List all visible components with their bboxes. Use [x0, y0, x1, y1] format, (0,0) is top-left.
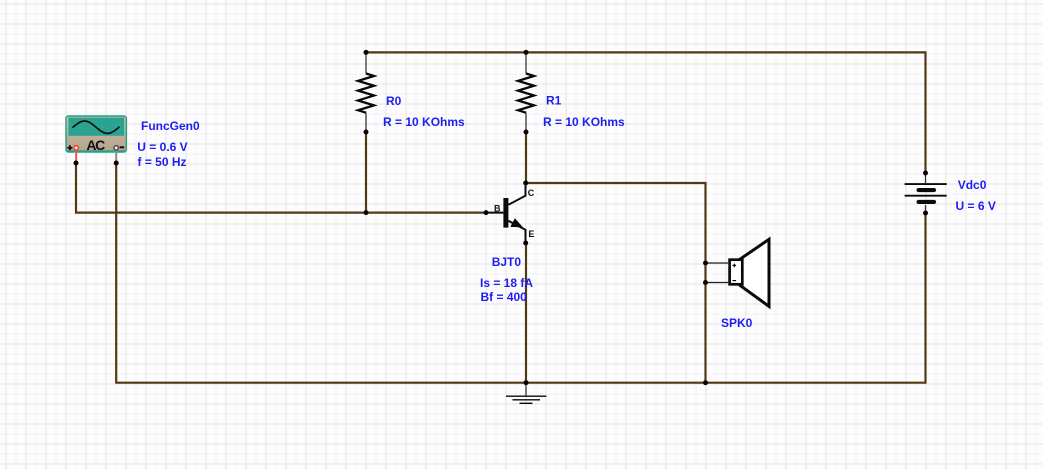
battery Vdc0 short plate 2 [919, 200, 934, 204]
wire from R0 bottom to base rail [365, 132, 367, 213]
junction dot speaker plus [703, 261, 708, 266]
svg-text:BJT0: BJT0 [492, 255, 522, 269]
label SPK0 [721, 316, 753, 330]
svg-text:f = 50 Hz: f = 50 Hz [138, 155, 187, 169]
svg-text:AC: AC [86, 137, 105, 153]
label Vdc0 [958, 178, 987, 192]
wire from emitter down to ground node [525, 243, 527, 383]
ground symbol [506, 384, 546, 403]
svg-text:E: E [528, 229, 534, 239]
value FuncGen0 f = 50 Hz [138, 155, 187, 169]
svg-text:Bf = 400: Bf = 400 [481, 290, 528, 304]
resistor R0 [358, 54, 374, 131]
pin label C [528, 188, 535, 198]
svg-text:R0: R0 [386, 94, 402, 108]
wire base rail from FuncGen+ to transistor base [76, 163, 486, 213]
speaker SPK0 minus mark [733, 280, 737, 282]
pin label B [494, 203, 501, 213]
junction dot R0 bottom [364, 130, 369, 135]
svg-text:U = 6 V: U = 6 V [956, 199, 996, 213]
value BJT0 Is = 18 fA [480, 276, 533, 290]
svg-text:SPK0: SPK0 [721, 316, 753, 330]
junction dot ground node [524, 380, 529, 385]
speaker SPK0 horn [740, 239, 769, 306]
value FuncGen0 U = 0.6 V [137, 140, 187, 154]
FuncGen0 minus sign [120, 146, 124, 148]
value R0 R = 10 KOhms [383, 115, 465, 129]
svg-text:R1: R1 [546, 94, 562, 108]
junction dot base rail R0 node [364, 210, 369, 215]
FuncGen0 plus terminal [74, 146, 78, 162]
speaker SPK0 driver box [730, 260, 743, 285]
wire from collector node to speaker branch down to bottom rail [526, 183, 706, 383]
value R1 R = 10 KOhms [543, 115, 625, 129]
FuncGen0 minus terminal [114, 146, 118, 162]
transistor BJT0 emitter arrow [510, 218, 523, 227]
junction dot emitter node [523, 241, 528, 246]
transistor BJT0 collector lead [508, 184, 525, 205]
label FuncGen0 [141, 119, 200, 133]
junction dot R1 bottom [524, 130, 529, 135]
wire from FuncGen- down left side to bottom rail and right riser to battery bottom [116, 163, 925, 383]
resistor R1 [518, 54, 534, 131]
transistor BJT0 emitter lead [508, 221, 525, 242]
svg-text:FuncGen0: FuncGen0 [141, 119, 200, 133]
transistor BJT0 base lead [487, 212, 503, 214]
battery Vdc0 leads [925, 174, 927, 212]
wire from R1 bottom to collector node [525, 132, 527, 183]
speaker SPK0 leads [707, 263, 728, 283]
junction dot speaker branch to bottom rail [703, 380, 708, 385]
wire top rail from R0 to battery top [366, 52, 926, 172]
battery Vdc0 long plate 1 [905, 183, 947, 185]
svg-text:B: B [494, 203, 501, 213]
svg-text:C: C [528, 188, 535, 198]
junction dot speaker minus [703, 280, 708, 285]
junction dot FuncGen minus node [114, 161, 119, 166]
svg-text:Is = 18 fA: Is = 18 fA [480, 276, 533, 290]
battery Vdc0 short plate 1 [919, 188, 934, 192]
pin label E [528, 229, 534, 239]
junction dot base terminal [484, 210, 489, 215]
value Vdc0 U = 6 V [956, 199, 996, 213]
svg-text:R = 10 KOhms: R = 10 KOhms [383, 115, 465, 129]
svg-text:Vdc0: Vdc0 [958, 178, 987, 192]
function generator FuncGen0 body [66, 116, 126, 152]
label R0 [386, 94, 402, 108]
junction dot R0 top [364, 50, 369, 55]
svg-text:R = 10 KOhms: R = 10 KOhms [543, 115, 625, 129]
junction dot R1 top [524, 50, 529, 55]
transistor BJT0 body bar [503, 198, 508, 228]
junction dot battery top [923, 171, 928, 176]
value BJT0 Bf = 400 [481, 290, 528, 304]
FuncGen0 AC text [86, 137, 105, 153]
label R1 [546, 94, 562, 108]
FuncGen0 plus sign [67, 145, 72, 150]
junction dot collector node [523, 181, 528, 186]
battery Vdc0 long plate 2 [905, 195, 947, 197]
FuncGen0 sine wave on screen [73, 121, 119, 133]
junction dot battery bottom [923, 211, 928, 216]
svg-text:U = 0.6 V: U = 0.6 V [137, 140, 187, 154]
junction dot FuncGen plus node [74, 161, 79, 166]
label BJT0 [492, 255, 522, 269]
speaker SPK0 plus mark [733, 264, 737, 268]
